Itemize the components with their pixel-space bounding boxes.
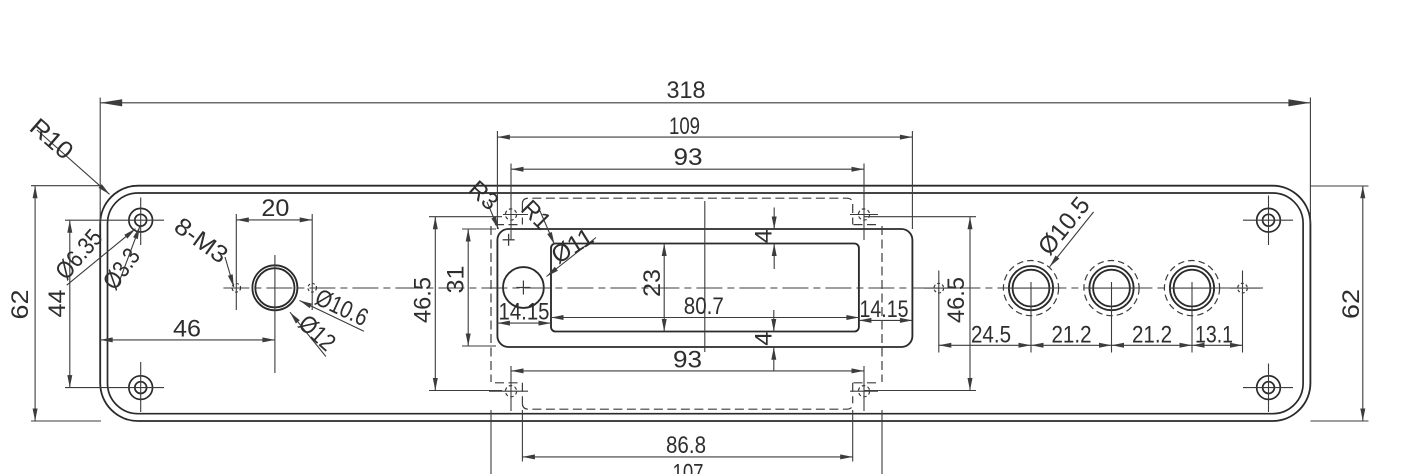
- svg-text:21.2: 21.2: [1052, 322, 1092, 349]
- svg-text:46: 46: [173, 316, 201, 343]
- svg-text:4: 4: [751, 332, 778, 346]
- svg-text:93: 93: [674, 144, 703, 171]
- svg-text:93: 93: [673, 347, 702, 374]
- svg-text:13.1: 13.1: [1195, 322, 1233, 349]
- svg-text:86.8: 86.8: [666, 432, 706, 459]
- svg-text:62: 62: [1338, 289, 1365, 319]
- svg-text:318: 318: [667, 77, 706, 104]
- svg-text:23: 23: [639, 269, 666, 297]
- svg-text:4: 4: [751, 229, 778, 243]
- svg-text:44: 44: [44, 290, 71, 318]
- svg-text:62: 62: [7, 290, 34, 320]
- svg-text:46.5: 46.5: [943, 277, 970, 323]
- svg-text:24.5: 24.5: [971, 322, 1011, 349]
- svg-text:20: 20: [261, 195, 289, 222]
- svg-text:31: 31: [443, 266, 470, 294]
- svg-text:21.2: 21.2: [1132, 322, 1172, 349]
- svg-text:80.7: 80.7: [684, 293, 724, 320]
- svg-text:14.15: 14.15: [499, 298, 550, 325]
- svg-text:14.15: 14.15: [860, 296, 909, 323]
- svg-text:109: 109: [669, 113, 700, 140]
- svg-text:46.5: 46.5: [410, 277, 437, 323]
- svg-text:107: 107: [673, 460, 704, 474]
